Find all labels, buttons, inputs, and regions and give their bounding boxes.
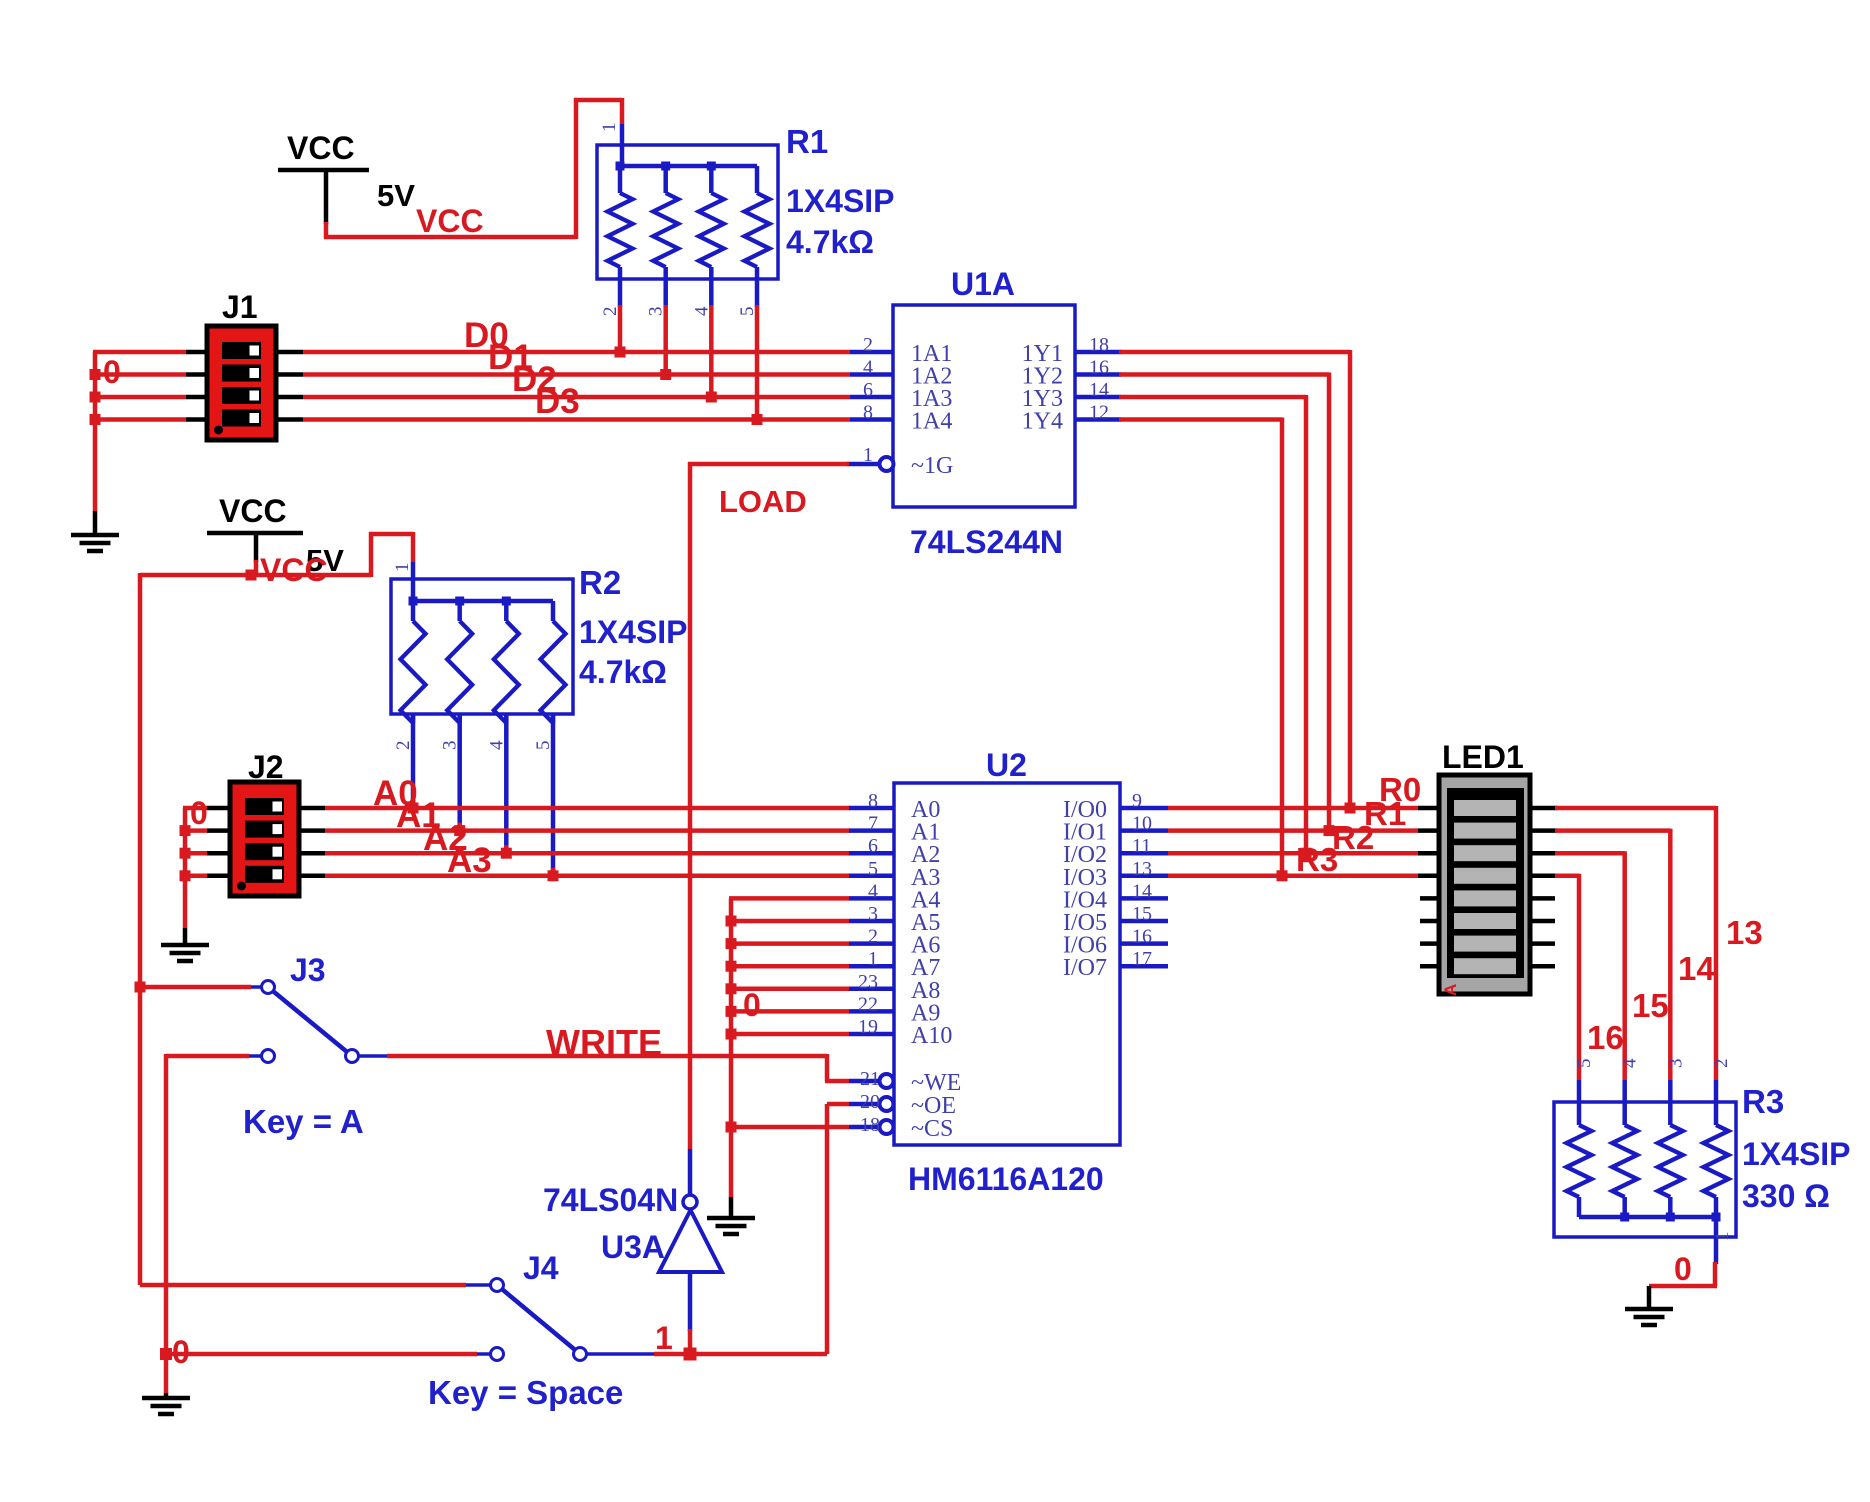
value 74LS244N <box>910 524 1063 560</box>
svg-text:12: 12 <box>1089 402 1109 424</box>
svg-text:0: 0 <box>743 987 761 1023</box>
wire D0 bus <box>303 350 850 355</box>
svg-text:Key = Space: Key = Space <box>428 1374 623 1411</box>
svg-text:Key = A: Key = A <box>243 1103 364 1140</box>
label U2 <box>986 747 1027 783</box>
svg-text:16: 16 <box>1587 1019 1624 1056</box>
wire R3 pin1 to ground <box>1649 1262 1717 1286</box>
LED1 right pins <box>1530 808 1557 966</box>
svg-text:1A4: 1A4 <box>911 409 952 435</box>
svg-text:WRITE: WRITE <box>546 1022 662 1063</box>
svg-text:1: 1 <box>1712 1232 1733 1242</box>
net label A3 <box>447 841 492 880</box>
svg-text:2: 2 <box>600 307 621 317</box>
svg-text:1X4SIP: 1X4SIP <box>1742 1136 1851 1172</box>
net label D3 <box>535 382 580 421</box>
net label 0 (J1) <box>103 354 121 390</box>
svg-text:A: A <box>1441 984 1460 996</box>
net label D2 <box>512 360 557 399</box>
power VCC symbol (middle) <box>207 493 303 562</box>
J1 left pins <box>186 352 207 420</box>
R2 pins 2-5 wires to address bus <box>408 714 559 881</box>
wire left rail (VCC column to J3/J4) <box>138 573 143 1285</box>
net label D0 <box>464 316 509 355</box>
svg-text:0: 0 <box>190 795 208 831</box>
ground (below J1) <box>71 511 119 551</box>
net label R3 (net) <box>1296 841 1338 878</box>
ground (A4-A10 tie) <box>707 1197 755 1234</box>
J1 right pins <box>276 352 303 420</box>
label R3 <box>1742 1083 1784 1120</box>
R2 pin numbers 2-5 <box>393 740 554 750</box>
svg-text:4: 4 <box>1620 1058 1641 1068</box>
net label 0 (J4) <box>172 1334 190 1370</box>
svg-text:~1G: ~1G <box>911 453 953 479</box>
svg-text:4: 4 <box>691 306 712 316</box>
svg-text:5: 5 <box>1574 1059 1595 1069</box>
svg-text:18: 18 <box>1089 334 1109 356</box>
svg-text:1: 1 <box>868 948 878 970</box>
value 1X4SIP (R2) <box>579 614 688 650</box>
net label A0 <box>373 774 418 813</box>
svg-text:0: 0 <box>1674 1251 1692 1287</box>
wire LED1 row1 to R3 <box>1555 806 1716 1080</box>
U2 I/O pin stubs <box>1120 808 1168 966</box>
svg-text:11: 11 <box>1132 835 1151 857</box>
svg-text:7: 7 <box>868 813 878 835</box>
net label R2 (net) <box>1332 819 1374 856</box>
svg-text:2: 2 <box>1711 1059 1732 1069</box>
U2 control pin names <box>911 1070 961 1142</box>
value 1X4SIP (R3) <box>1742 1136 1851 1172</box>
svg-text:330 Ω: 330 Ω <box>1742 1178 1830 1214</box>
label U3A <box>601 1229 665 1265</box>
svg-text:15: 15 <box>1132 903 1152 925</box>
svg-text:A10: A10 <box>911 1023 952 1049</box>
wire A3 bus <box>325 874 850 879</box>
svg-text:3: 3 <box>1665 1059 1686 1069</box>
svg-text:14: 14 <box>1132 880 1152 902</box>
svg-text:0: 0 <box>172 1334 190 1370</box>
net label A1 <box>396 796 441 835</box>
U2 control pin numbers <box>860 1068 880 1136</box>
svg-text:R1: R1 <box>786 123 828 160</box>
wire A1 bus <box>325 828 850 833</box>
inverter U3A 74LS04N <box>659 1149 722 1331</box>
U1A output pin names <box>1022 341 1063 435</box>
svg-text:3: 3 <box>646 307 667 317</box>
switch J4 <box>140 1279 692 1361</box>
svg-text:R2: R2 <box>1332 819 1374 856</box>
label U1A <box>951 266 1015 302</box>
U2 control pin stubs with bubbles <box>849 1074 894 1134</box>
svg-text:16: 16 <box>1089 357 1109 379</box>
svg-text:8: 8 <box>868 790 878 812</box>
svg-text:18: 18 <box>860 1114 880 1136</box>
svg-text:20: 20 <box>860 1091 880 1113</box>
svg-text:74LS244N: 74LS244N <box>910 524 1063 560</box>
wire LOAD (U1A pin1 to U3A output) <box>688 462 849 1149</box>
svg-text:1: 1 <box>655 1320 673 1356</box>
net label VCC (red, middle) <box>260 552 328 588</box>
svg-text:1: 1 <box>392 563 413 573</box>
wire J1 pins to ground <box>90 352 187 511</box>
svg-text:J1: J1 <box>222 289 258 325</box>
R2 pin 1 number <box>392 563 413 573</box>
svg-text:5V: 5V <box>377 178 415 213</box>
R1 pin numbers 2-5 <box>600 306 758 316</box>
LED1 left pins <box>1418 808 1439 966</box>
U2 address pin stubs <box>849 808 894 1034</box>
wire J2 pins to ground <box>180 808 208 928</box>
svg-text:6: 6 <box>868 835 878 857</box>
wire J3 lower to J4 rail <box>164 1054 169 1393</box>
svg-text:R3: R3 <box>1742 1083 1784 1120</box>
wire D2 bus <box>303 395 850 400</box>
svg-text:4: 4 <box>868 880 878 902</box>
svg-text:1X4SIP: 1X4SIP <box>579 614 688 650</box>
U1A input pin numbers <box>863 334 873 424</box>
svg-text:LOAD: LOAD <box>719 484 807 519</box>
svg-text:0: 0 <box>103 354 121 390</box>
net label WRITE <box>546 1022 662 1063</box>
svg-text:HM6116A120: HM6116A120 <box>908 1161 1104 1197</box>
svg-text:16: 16 <box>1132 926 1152 948</box>
svg-text:2: 2 <box>863 334 873 356</box>
svg-text:22: 22 <box>858 993 878 1015</box>
svg-text:3: 3 <box>868 903 878 925</box>
wire WRITE (J3 to ~WE) <box>387 1054 849 1081</box>
label 5V (VCC middle) <box>306 543 344 578</box>
svg-text:9: 9 <box>1132 790 1142 812</box>
label Key = Space <box>428 1374 623 1411</box>
svg-text:2: 2 <box>868 926 878 948</box>
U1A output pin numbers <box>1089 334 1109 424</box>
svg-text:U2: U2 <box>986 747 1027 783</box>
value 4.7kOhm (R1) <box>786 224 874 260</box>
net label 15 <box>1632 987 1669 1024</box>
svg-text:VCC: VCC <box>260 552 328 588</box>
J2 right pins <box>299 808 325 876</box>
U1A output pin stubs <box>1075 352 1121 420</box>
wire VCC to R1 pin 1 <box>324 98 622 239</box>
svg-text:4.7kΩ: 4.7kΩ <box>786 224 874 260</box>
svg-text:14: 14 <box>1089 379 1109 401</box>
wire LED1 row4 to R3 <box>1555 874 1579 1080</box>
label R2 <box>579 564 621 601</box>
svg-text:VCC: VCC <box>416 203 484 239</box>
svg-text:LED1: LED1 <box>1442 739 1524 775</box>
svg-text:23: 23 <box>858 971 878 993</box>
svg-text:4.7kΩ: 4.7kΩ <box>579 654 667 690</box>
U2 I/O pin names <box>1063 797 1107 981</box>
LED bargraph LED1 <box>1439 775 1530 994</box>
svg-text:2: 2 <box>393 741 414 751</box>
wire LED1 row3 to R3 <box>1555 851 1625 1080</box>
U2 address pin numbers <box>858 790 878 1038</box>
net label R0 <box>1379 771 1421 808</box>
wire VCC to R2 pin 1 and J3 <box>140 532 413 581</box>
svg-text:14: 14 <box>1678 950 1715 987</box>
U1A input pin stubs <box>850 352 893 420</box>
svg-text:U1A: U1A <box>951 266 1015 302</box>
label Key = A <box>243 1103 364 1140</box>
svg-text:4: 4 <box>863 357 873 379</box>
value 330 Ohm (R3) <box>1742 1178 1830 1214</box>
wire LED1 row2 to R3 <box>1555 829 1670 1080</box>
ground (below J2) <box>161 928 209 961</box>
svg-text:J3: J3 <box>290 952 326 988</box>
net label 1 <box>655 1320 673 1356</box>
svg-text:1: 1 <box>599 123 620 133</box>
svg-text:I/O7: I/O7 <box>1063 955 1107 981</box>
svg-text:13: 13 <box>1726 914 1763 951</box>
svg-text:J4: J4 <box>523 1250 559 1286</box>
connector J1 (DIP switch) <box>207 326 276 440</box>
svg-text:5: 5 <box>737 307 758 317</box>
svg-text:5: 5 <box>533 741 554 751</box>
svg-text:1Y4: 1Y4 <box>1022 409 1063 435</box>
label R1 <box>786 123 828 160</box>
U2 I/O pin numbers <box>1132 790 1152 970</box>
svg-text:10: 10 <box>1132 813 1152 835</box>
svg-text:U3A: U3A <box>601 1229 665 1265</box>
svg-text:1: 1 <box>863 444 873 466</box>
label J4 <box>523 1250 559 1286</box>
wire A4-A10 and ~CS to ground <box>726 898 850 1197</box>
svg-text:R2: R2 <box>579 564 621 601</box>
switch J3 <box>135 981 388 1063</box>
value 4.7kOhm (R2) <box>579 654 667 690</box>
wire U3A input to node 1 <box>684 1329 697 1361</box>
svg-text:8: 8 <box>863 402 873 424</box>
label J3 <box>290 952 326 988</box>
label LED1 <box>1442 739 1524 775</box>
svg-text:15: 15 <box>1632 987 1669 1024</box>
svg-text:J2: J2 <box>248 749 284 785</box>
svg-text:VCC: VCC <box>287 130 355 166</box>
wire ~OE to J4/U3A node <box>690 1104 849 1354</box>
resistor network R2 1X4SIP <box>391 562 573 723</box>
wire 1Y1 to I/O0 <box>1119 350 1356 814</box>
svg-text:21: 21 <box>860 1068 880 1090</box>
wire 1Y2 to I/O1 <box>1119 373 1335 837</box>
net label 14 <box>1678 950 1715 987</box>
svg-text:19: 19 <box>858 1016 878 1038</box>
label 5V (VCC top) <box>377 178 415 213</box>
svg-text:R3: R3 <box>1296 841 1338 878</box>
svg-text:A3: A3 <box>447 841 492 880</box>
U1A pin 1 ~1G with bubble <box>847 444 953 479</box>
wire I/O2 to LED1 <box>1168 851 1418 856</box>
wire D1 bus <box>303 372 850 377</box>
net label 0 (A bus) <box>743 987 761 1023</box>
svg-text:3: 3 <box>440 741 461 751</box>
U1A input pin names <box>911 341 952 435</box>
net label 0 (R3) <box>1674 1251 1692 1287</box>
svg-text:74LS04N: 74LS04N <box>543 1182 678 1218</box>
net label R1 (net) <box>1364 795 1406 832</box>
wire A0 bus <box>325 806 850 811</box>
net label A2 <box>423 819 468 858</box>
svg-text:1X4SIP: 1X4SIP <box>786 183 895 219</box>
LED1 A marker <box>1441 984 1460 996</box>
IC body U2 <box>894 783 1120 1145</box>
op-amp-style IC body U1A <box>893 305 1075 507</box>
svg-text:~CS: ~CS <box>911 1116 953 1142</box>
svg-text:6: 6 <box>863 379 873 401</box>
power VCC symbol (top) <box>278 130 369 224</box>
wire 1Y4 to I/O3 <box>1119 418 1288 882</box>
value 1X4SIP (R1) <box>786 183 895 219</box>
value 74LS04N <box>543 1182 678 1218</box>
net label 16 <box>1587 1019 1624 1056</box>
wire I/O1 to LED1 <box>1168 828 1418 833</box>
resistor network R3 1X4SIP <box>1554 1080 1736 1264</box>
net label 0 (J2) <box>190 795 208 831</box>
U2 address pin names <box>911 797 952 1049</box>
R1 pin 1 number <box>599 123 620 133</box>
net label 13 <box>1726 914 1763 951</box>
R3 pin numbers 5-2 <box>1574 1058 1732 1068</box>
resistor network R1 1X4SIP <box>597 124 778 279</box>
label J2 <box>248 749 284 785</box>
connector J2 (DIP switch) <box>230 782 299 896</box>
wire I/O3 to LED1 <box>1168 874 1418 879</box>
net label D1 <box>488 338 533 377</box>
ground (below J4) <box>142 1393 190 1414</box>
wire D3 bus <box>303 417 850 422</box>
wire I/O0 to LED1 <box>1168 806 1418 811</box>
ground (below R3) <box>1625 1286 1673 1325</box>
wire A2 bus <box>325 851 850 856</box>
label J1 <box>222 289 258 325</box>
svg-text:5: 5 <box>868 858 878 880</box>
net label LOAD <box>719 484 807 519</box>
net label VCC (red, top) <box>416 203 484 239</box>
R3 pin 1 number <box>1712 1232 1733 1242</box>
wire 1Y3 to I/O2 <box>1119 395 1312 859</box>
R1 pins 2-5 wires to data bus <box>615 279 763 425</box>
svg-text:VCC: VCC <box>219 493 287 529</box>
svg-text:17: 17 <box>1132 948 1152 970</box>
value HM6116A120 <box>908 1161 1104 1197</box>
svg-text:13: 13 <box>1132 858 1152 880</box>
svg-text:4: 4 <box>486 740 507 750</box>
svg-text:D3: D3 <box>535 382 580 421</box>
J2 left pins <box>207 808 230 876</box>
